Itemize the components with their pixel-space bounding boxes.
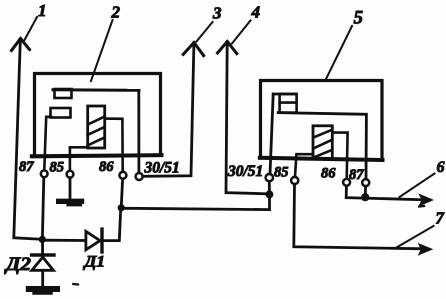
svg-text:86: 86 bbox=[99, 159, 114, 175]
wire node to diode D1 bbox=[44, 239, 86, 242]
diode D1 bbox=[86, 229, 102, 252]
label 5 bbox=[325, 8, 364, 82]
svg-text:30/51: 30/51 bbox=[227, 163, 263, 180]
svg-text:86: 86 bbox=[321, 166, 336, 182]
wire 7 arrowhead bbox=[418, 243, 434, 256]
svg-text:30/51: 30/51 bbox=[144, 160, 180, 177]
wire coil to terminal 85 right bbox=[295, 154, 313, 177]
svg-text:Д2: Д2 bbox=[4, 255, 31, 275]
wire coil to terminal 85 left bbox=[70, 147, 87, 170]
relay K1 movable contact bbox=[51, 108, 71, 118]
wire terminal 86 right to wire 6 bbox=[346, 186, 425, 200]
label 6 bbox=[400, 159, 445, 197]
wire terminal 87 right down bbox=[364, 186, 367, 196]
svg-text:6: 6 bbox=[437, 159, 445, 176]
wire 4 arrow bbox=[218, 42, 237, 54]
svg-text:4: 4 bbox=[251, 3, 261, 22]
label 4 bbox=[232, 3, 260, 44]
relay K1 coil hatching bbox=[88, 117, 105, 146]
wire 3 bbox=[143, 44, 194, 176]
node wire 6 junction bbox=[361, 193, 369, 201]
node diode junction bbox=[39, 236, 46, 243]
wire 1 arrow bbox=[12, 39, 30, 51]
wire coil to terminal 86 left bbox=[105, 119, 123, 172]
label 7 bbox=[397, 209, 445, 248]
relay K2 contact pair bbox=[280, 94, 297, 113]
svg-text:3: 3 bbox=[212, 4, 222, 23]
relay K2 riser 30/51 bbox=[270, 94, 273, 174]
relay K1 fixed contact bbox=[55, 89, 72, 98]
node 30/51 right junction bbox=[265, 190, 273, 198]
svg-text:85: 85 bbox=[274, 165, 289, 181]
wire terminal 85 right to wire 7 bbox=[294, 184, 425, 249]
stray mark 1 bbox=[73, 283, 78, 286]
wire bar to terminal 30/51 left bbox=[137, 91, 140, 173]
node 86 junction bbox=[118, 204, 125, 211]
wire 4 bbox=[226, 43, 267, 194]
wire 6 arrowhead bbox=[418, 193, 434, 206]
terminal 87 right bbox=[362, 179, 369, 186]
relay K2 top contact bar bbox=[273, 93, 296, 96]
relay K2 coil L2 bbox=[313, 126, 332, 159]
wire terminal 87 to diode node bbox=[42, 177, 43, 238]
terminal 85 right bbox=[291, 177, 298, 184]
svg-text:1: 1 bbox=[38, 1, 47, 20]
wire terminal 86 down bbox=[121, 179, 122, 206]
svg-text:5: 5 bbox=[354, 8, 364, 29]
label 3 bbox=[197, 4, 223, 42]
label 2 bbox=[91, 3, 121, 82]
terminal 85 left bbox=[67, 171, 74, 178]
svg-text:2: 2 bbox=[111, 3, 121, 22]
terminal 30/51 right bbox=[266, 174, 273, 181]
terminal 87 left bbox=[41, 170, 48, 177]
ground D2 bbox=[29, 289, 57, 293]
wire diode D1 to node 86 bbox=[104, 210, 121, 241]
terminal 86 left bbox=[119, 172, 126, 179]
svg-text:7: 7 bbox=[436, 209, 445, 228]
svg-text:87: 87 bbox=[19, 159, 34, 175]
wire long link to right relay bbox=[123, 197, 270, 210]
diode D2 bbox=[32, 241, 54, 286]
terminal 86 right bbox=[343, 179, 350, 186]
svg-text:Д1: Д1 bbox=[82, 254, 105, 271]
ground left relay bbox=[59, 178, 82, 205]
wire contact to terminal 87 left bbox=[44, 117, 51, 170]
relay K2 coil hatching bbox=[313, 130, 331, 158]
wire junction to terminal 30/51 right bbox=[268, 181, 271, 193]
relay K2 armature bar to 87 bbox=[278, 113, 366, 179]
relay K1 outer box bbox=[32, 74, 162, 157]
wire 1 bbox=[14, 40, 42, 239]
terminal 30/51 left bbox=[136, 173, 143, 180]
wire coil to terminal 86 right bbox=[332, 133, 347, 179]
relay K1 top contact bar bbox=[53, 88, 139, 92]
label 1 bbox=[25, 1, 47, 40]
wire 3 arrow bbox=[183, 43, 203, 56]
stray mark 2 bbox=[419, 205, 424, 208]
svg-text:85: 85 bbox=[50, 160, 65, 176]
relay K1 coil L1 bbox=[88, 106, 105, 148]
relay K2 outer box bbox=[260, 81, 383, 161]
